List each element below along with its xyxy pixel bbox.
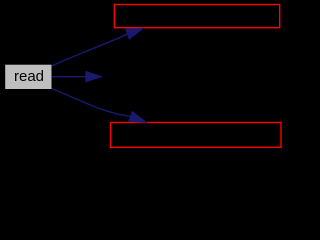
node truncated bottom (red) (111, 123, 282, 148)
edge read->top (52, 28, 143, 66)
node truncated top (red) (114, 5, 279, 28)
edge read->bottom (52, 89, 146, 123)
svg-text:read: read (14, 68, 44, 85)
edge read->middle (hidden node) (52, 71, 102, 81)
node read (5, 65, 51, 89)
